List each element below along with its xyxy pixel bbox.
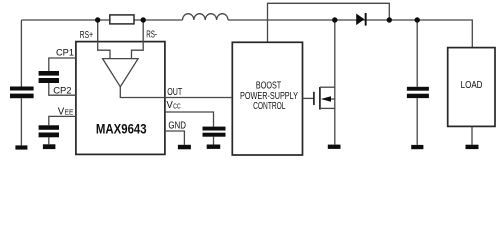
transistor Q1 channel bar	[319, 87, 321, 110]
wire boost top feed	[268, 3, 390, 42]
ground VCC cap	[207, 145, 221, 149]
svg-text:MAX9643: MAX9643	[96, 120, 147, 136]
pin GND	[165, 131, 185, 145]
op-amp U1 box MAX9643	[76, 42, 165, 155]
diode D1	[356, 14, 364, 26]
transistor Q1 body line	[331, 98, 335, 100]
transistor Q1 source stub	[320, 107, 335, 109]
svg-text:GND: GND	[168, 121, 186, 132]
pin VCC	[165, 112, 214, 145]
capacitor C2 CP plates	[39, 71, 59, 76]
capacitor C5 output plates	[407, 87, 429, 91]
svg-text:EE: EE	[65, 110, 74, 117]
capacitor C3 VEE plates	[39, 125, 59, 130]
transistor Q1 gate bar	[313, 92, 315, 105]
wire gate	[303, 97, 314, 99]
wire top rail right	[228, 20, 472, 48]
pin CP1	[49, 58, 76, 71]
ground load	[466, 145, 479, 149]
svg-text:RS-: RS-	[146, 30, 157, 41]
svg-text:CC: CC	[173, 103, 181, 110]
svg-text:LOAD: LOAD	[461, 80, 483, 91]
pin RS-	[132, 20, 144, 59]
capacitor C4 VCC plates	[203, 127, 226, 131]
transistor Q1 drain stub	[320, 86, 335, 88]
pin RS+	[98, 20, 110, 59]
wire load ground	[471, 126, 473, 144]
node dot output	[415, 17, 420, 22]
wire op-amp output OUT	[120, 87, 232, 98]
ground input cap	[15, 145, 27, 149]
wire input cap drop	[20, 20, 22, 145]
svg-text:CONTROL: CONTROL	[253, 101, 286, 112]
wire top rail left	[21, 19, 182, 21]
svg-text:BOOST: BOOST	[256, 80, 281, 91]
diode D1 cathode bar	[365, 13, 367, 26]
ground VEE	[43, 144, 56, 149]
node dot diode cathode	[387, 17, 392, 22]
svg-text:OUT: OUT	[167, 87, 182, 98]
svg-text:RS+: RS+	[80, 30, 93, 41]
load box	[448, 48, 495, 127]
wire MOSFET drain-source rail	[334, 20, 336, 145]
resistor RSENSE	[110, 15, 134, 24]
boost controller U2 box	[232, 42, 302, 155]
transistor Q1 body arrow	[321, 96, 331, 101]
pin CP2	[49, 83, 76, 95]
wire output cap drop	[416, 20, 418, 145]
svg-text:CP2: CP2	[53, 85, 71, 96]
svg-text:CP1: CP1	[56, 47, 74, 58]
capacitor C1 input plates	[10, 87, 34, 91]
node dot RS+	[95, 17, 100, 22]
inductor L1	[183, 14, 229, 20]
ground MOSFET source	[328, 145, 341, 149]
op-amp triangle	[103, 59, 139, 87]
pin VEE	[49, 116, 76, 144]
ground GND pin	[178, 145, 191, 150]
ground output cap	[411, 145, 423, 149]
node dot RS-	[141, 17, 146, 22]
node dot drain	[332, 17, 337, 22]
